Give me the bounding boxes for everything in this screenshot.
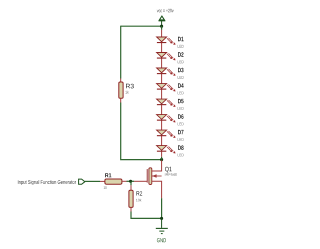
wire LED chain pins [161,30,163,157]
LED D2 [157,53,176,61]
label D4 value LED [178,92,184,95]
wire R3 top pin [120,79,122,83]
LED D5 [157,99,176,107]
label D3 reference [178,68,184,73]
label R3 reference [126,84,134,89]
terminal input arrow [79,179,85,184]
label D2 reference [178,52,184,56]
wire Q1 drain lead [152,160,162,171]
label D6 reference [178,114,184,119]
wire Q1 source lead [152,181,162,198]
power symbol VCC [159,16,166,26]
LED D7 [157,130,176,138]
junction gate node [129,180,132,183]
label GND [157,238,166,242]
wire D8 cathode to drain node [161,157,163,160]
wire R2 to ground rail [131,212,162,219]
label D2 value LED [178,61,184,64]
label D6 value LED [178,123,184,126]
LED D3 [157,68,176,76]
label R2 reference [137,191,143,195]
wire ground stub [161,218,163,228]
label D1 value LED [178,45,184,48]
wire Q1 substrate lead [152,175,162,177]
label D8 reference [178,145,184,150]
label R2 value 10k [136,199,141,202]
label D5 value LED [178,107,184,110]
wire R2 bottom pin [130,207,132,211]
junction drain node [160,158,163,161]
label D7 value LED [178,138,184,141]
label R1 value 10 [104,186,107,189]
wire R1 right pin [122,180,127,182]
wire R1 left pin [100,180,105,182]
label D7 reference [178,130,184,134]
LED D4 [157,84,176,92]
LED D8 [157,146,176,154]
label Input Signal Function Generator [18,180,76,185]
label vcc = +20v [157,9,174,13]
arrow Q1 substrate [152,174,157,178]
ground [156,228,168,233]
wire input to R1 [85,180,100,182]
resistor R3 [119,82,123,98]
wire gate node [127,180,135,182]
label R3 value 1k [126,91,129,94]
LED D1 [157,37,176,45]
wire top rail [121,25,162,27]
label D3 value LED [178,76,184,79]
wire left branch down [120,26,122,79]
label Q1 value IRF540 [165,173,177,176]
wire Q1 gate pin [134,180,147,182]
label D4 reference [178,83,184,87]
wire Q1 source down [161,198,163,218]
wire left branch to drain node [121,103,162,160]
label Q1 reference [165,167,172,173]
junction VCC node [160,25,163,28]
wire R3 bottom pin [120,98,122,102]
transistor Q1 [147,168,152,185]
resistor R1 [105,179,122,184]
label R1 reference [105,173,111,177]
label D1 reference [178,37,184,41]
LED D6 [157,115,176,123]
resistor R2 [129,190,133,207]
junction ground node [160,217,163,220]
wire R2 top pin [130,181,132,185]
label D8 value LED [178,154,184,157]
wire below VCC junction [161,26,163,30]
label D5 reference [178,99,184,103]
